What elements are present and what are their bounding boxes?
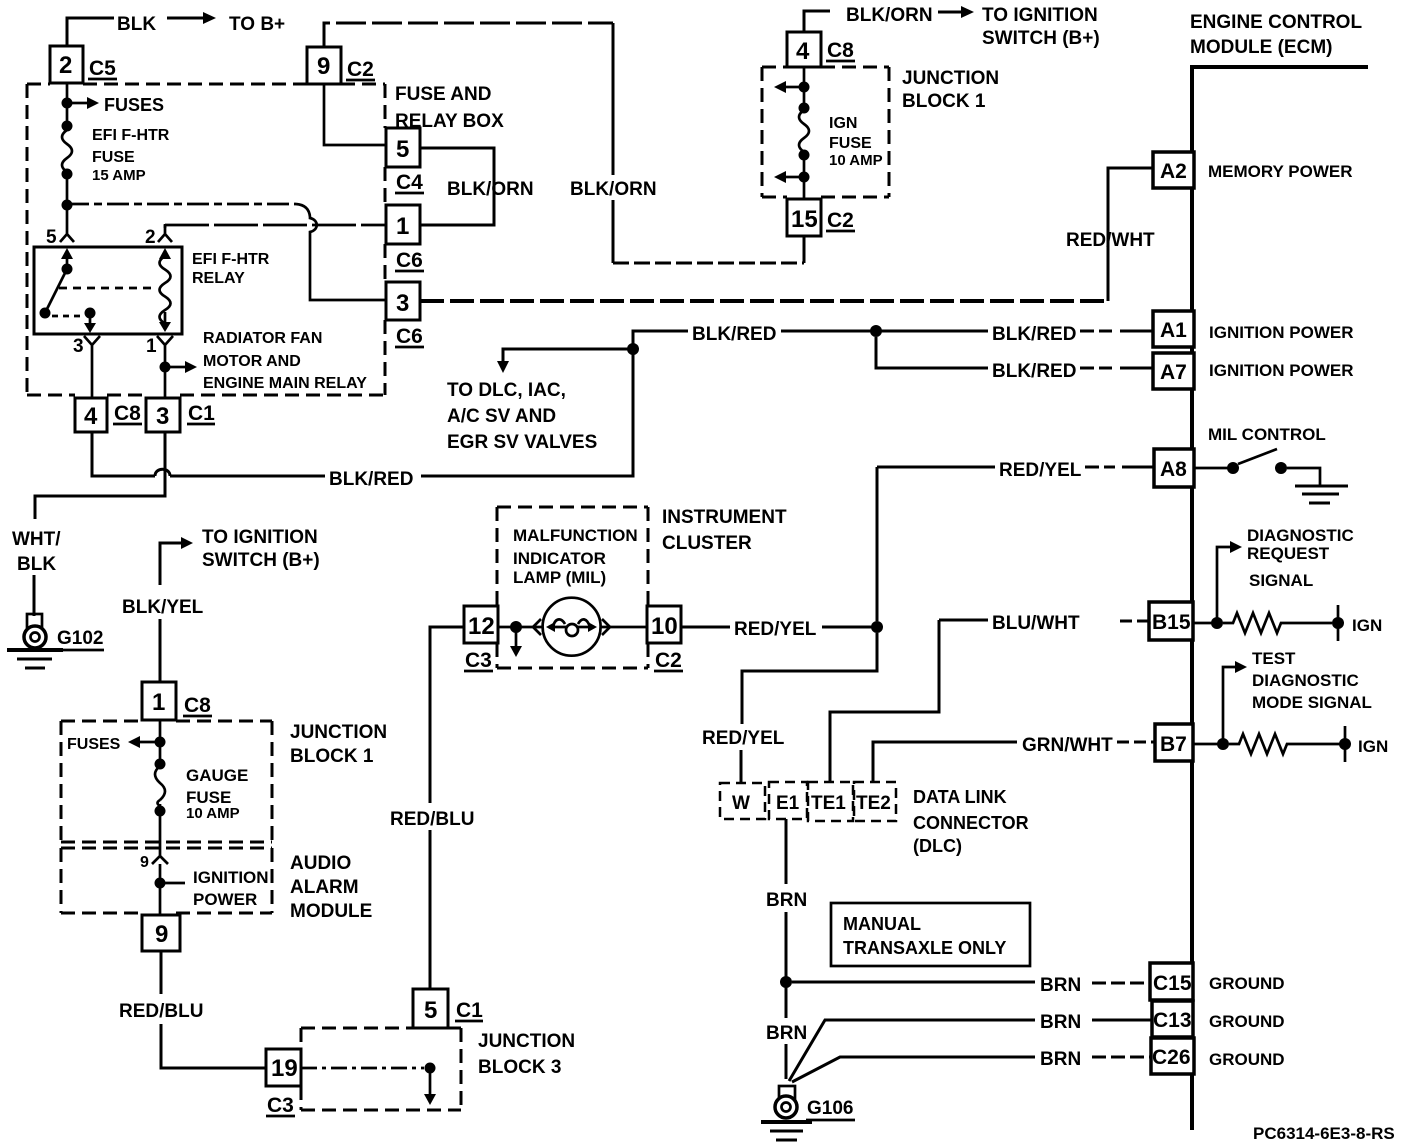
svg-text:MODULE: MODULE bbox=[290, 901, 372, 922]
svg-text:IGN: IGN bbox=[1352, 616, 1382, 635]
svg-text:IGNITION POWER: IGNITION POWER bbox=[1209, 361, 1354, 380]
svg-text:BLU/WHT: BLU/WHT bbox=[992, 613, 1080, 634]
svg-text:19: 19 bbox=[271, 1055, 298, 1082]
svg-text:BLOCK 1: BLOCK 1 bbox=[290, 746, 374, 767]
svg-text:TE1: TE1 bbox=[811, 793, 846, 814]
svg-text:SWITCH (B+): SWITCH (B+) bbox=[982, 28, 1100, 49]
svg-text:C3: C3 bbox=[465, 649, 492, 672]
svg-text:5: 5 bbox=[396, 136, 409, 163]
svg-text:WHT/: WHT/ bbox=[12, 529, 61, 550]
svg-text:10 AMP: 10 AMP bbox=[829, 152, 883, 169]
svg-text:3: 3 bbox=[396, 290, 409, 317]
svg-text:DIAGNOSTIC: DIAGNOSTIC bbox=[1252, 671, 1359, 690]
svg-text:MOTOR AND: MOTOR AND bbox=[203, 353, 301, 370]
svg-text:TE2: TE2 bbox=[856, 793, 891, 814]
svg-text:C1: C1 bbox=[456, 999, 483, 1022]
svg-text:C6: C6 bbox=[396, 325, 423, 348]
svg-text:BRN: BRN bbox=[1040, 975, 1081, 996]
svg-text:POWER: POWER bbox=[193, 890, 257, 909]
svg-text:BRN: BRN bbox=[766, 1023, 807, 1044]
svg-text:RADIATOR FAN: RADIATOR FAN bbox=[203, 330, 322, 347]
svg-text:REQUEST: REQUEST bbox=[1247, 544, 1330, 563]
svg-text:TRANSAXLE ONLY: TRANSAXLE ONLY bbox=[843, 938, 1006, 958]
svg-text:A7: A7 bbox=[1160, 361, 1187, 384]
svg-text:FUSES: FUSES bbox=[104, 95, 164, 115]
svg-text:FUSE: FUSE bbox=[829, 135, 872, 152]
svg-text:INDICATOR: INDICATOR bbox=[513, 549, 606, 568]
svg-text:TO IGNITION: TO IGNITION bbox=[982, 5, 1098, 26]
svg-text:GAUGE: GAUGE bbox=[186, 766, 248, 785]
svg-text:C2: C2 bbox=[347, 58, 374, 81]
svg-text:EFI F-HTR: EFI F-HTR bbox=[192, 251, 270, 268]
svg-text:INSTRUMENT: INSTRUMENT bbox=[662, 507, 787, 528]
svg-text:LAMP (MIL): LAMP (MIL) bbox=[513, 568, 606, 587]
svg-text:MEMORY POWER: MEMORY POWER bbox=[1208, 162, 1353, 181]
svg-text:TO IGNITION: TO IGNITION bbox=[202, 527, 318, 548]
svg-text:2: 2 bbox=[145, 227, 156, 248]
svg-text:BLOCK 3: BLOCK 3 bbox=[478, 1057, 561, 1078]
svg-text:JUNCTION: JUNCTION bbox=[902, 68, 999, 89]
svg-text:10: 10 bbox=[651, 613, 678, 640]
svg-text:3: 3 bbox=[156, 403, 169, 430]
svg-text:FUSE: FUSE bbox=[92, 149, 135, 166]
svg-text:E1: E1 bbox=[776, 793, 800, 814]
svg-text:9: 9 bbox=[155, 921, 168, 948]
svg-text:12: 12 bbox=[468, 613, 495, 640]
svg-text:15 AMP: 15 AMP bbox=[92, 167, 146, 184]
svg-text:GROUND: GROUND bbox=[1209, 1012, 1285, 1031]
svg-text:GROUND: GROUND bbox=[1209, 1050, 1285, 1069]
svg-text:RED/BLU: RED/BLU bbox=[119, 1001, 203, 1022]
svg-text:BRN: BRN bbox=[1040, 1012, 1081, 1033]
svg-text:BLK/RED: BLK/RED bbox=[329, 469, 413, 490]
svg-text:MODULE (ECM): MODULE (ECM) bbox=[1190, 37, 1332, 58]
svg-text:IGNITION POWER: IGNITION POWER bbox=[1209, 323, 1354, 342]
svg-text:C8: C8 bbox=[114, 402, 141, 425]
svg-text:RED/BLU: RED/BLU bbox=[390, 809, 474, 830]
svg-text:C2: C2 bbox=[655, 649, 682, 672]
svg-text:4: 4 bbox=[84, 403, 98, 430]
svg-text:EFI F-HTR: EFI F-HTR bbox=[92, 127, 170, 144]
svg-text:IGN: IGN bbox=[829, 115, 857, 132]
svg-text:G106: G106 bbox=[807, 1098, 853, 1119]
svg-text:FUSE AND: FUSE AND bbox=[395, 84, 491, 105]
svg-text:10 AMP: 10 AMP bbox=[186, 805, 240, 822]
svg-text:BLK/RED: BLK/RED bbox=[692, 324, 776, 345]
svg-text:RED/YEL: RED/YEL bbox=[999, 460, 1082, 481]
svg-text:BLK/RED: BLK/RED bbox=[992, 361, 1076, 382]
svg-text:1: 1 bbox=[152, 689, 165, 716]
svg-text:B7: B7 bbox=[1160, 733, 1187, 756]
svg-text:C3: C3 bbox=[267, 1094, 294, 1117]
svg-text:(DLC): (DLC) bbox=[913, 836, 962, 856]
svg-text:BLK/ORN: BLK/ORN bbox=[447, 179, 534, 200]
svg-text:4: 4 bbox=[796, 38, 810, 65]
svg-text:C15: C15 bbox=[1153, 972, 1192, 995]
svg-text:RED/YEL: RED/YEL bbox=[702, 728, 785, 749]
svg-text:MALFUNCTION: MALFUNCTION bbox=[513, 526, 638, 545]
svg-text:W: W bbox=[732, 793, 750, 814]
svg-text:BLK: BLK bbox=[17, 554, 56, 575]
svg-text:MIL CONTROL: MIL CONTROL bbox=[1208, 425, 1326, 444]
svg-text:A/C SV AND: A/C SV AND bbox=[447, 406, 556, 427]
svg-text:AUDIO: AUDIO bbox=[290, 853, 351, 874]
svg-text:PC6314-6E3-8-RS: PC6314-6E3-8-RS bbox=[1253, 1124, 1395, 1143]
svg-text:TEST: TEST bbox=[1252, 649, 1296, 668]
svg-text:C6: C6 bbox=[396, 249, 423, 272]
svg-text:BRN: BRN bbox=[766, 890, 807, 911]
svg-text:C1: C1 bbox=[188, 402, 215, 425]
svg-text:BLK/ORN: BLK/ORN bbox=[846, 5, 933, 26]
svg-text:GROUND: GROUND bbox=[1209, 974, 1285, 993]
svg-text:JUNCTION: JUNCTION bbox=[290, 722, 387, 743]
svg-text:SIGNAL: SIGNAL bbox=[1249, 571, 1313, 590]
svg-text:G102: G102 bbox=[57, 628, 103, 649]
svg-text:BLK/YEL: BLK/YEL bbox=[122, 597, 204, 618]
svg-text:1: 1 bbox=[396, 213, 409, 240]
svg-text:CONNECTOR: CONNECTOR bbox=[913, 813, 1029, 833]
svg-text:MODE SIGNAL: MODE SIGNAL bbox=[1252, 693, 1372, 712]
svg-text:SWITCH (B+): SWITCH (B+) bbox=[202, 550, 320, 571]
svg-text:5: 5 bbox=[46, 227, 57, 248]
svg-text:ENGINE MAIN RELAY: ENGINE MAIN RELAY bbox=[203, 375, 367, 392]
svg-text:CLUSTER: CLUSTER bbox=[662, 533, 752, 554]
svg-text:FUSES: FUSES bbox=[67, 736, 121, 753]
svg-text:C8: C8 bbox=[827, 39, 854, 62]
svg-text:9: 9 bbox=[317, 53, 330, 80]
svg-text:ENGINE CONTROL: ENGINE CONTROL bbox=[1190, 12, 1362, 33]
svg-text:TO B+: TO B+ bbox=[229, 14, 285, 35]
svg-text:BRN: BRN bbox=[1040, 1049, 1081, 1070]
svg-text:GRN/WHT: GRN/WHT bbox=[1022, 735, 1113, 756]
svg-text:RELAY: RELAY bbox=[192, 270, 245, 287]
svg-text:B15: B15 bbox=[1152, 611, 1191, 634]
svg-text:1: 1 bbox=[146, 336, 157, 357]
svg-text:ALARM: ALARM bbox=[290, 877, 359, 898]
svg-text:C8: C8 bbox=[184, 694, 211, 717]
svg-text:2: 2 bbox=[59, 52, 72, 79]
svg-text:A1: A1 bbox=[1160, 319, 1187, 342]
svg-text:5: 5 bbox=[424, 997, 437, 1024]
svg-text:EGR SV VALVES: EGR SV VALVES bbox=[447, 432, 597, 453]
svg-text:9: 9 bbox=[140, 854, 149, 871]
svg-text:RED/YEL: RED/YEL bbox=[734, 619, 817, 640]
svg-text:A8: A8 bbox=[1160, 458, 1187, 481]
svg-text:C13: C13 bbox=[1153, 1009, 1192, 1032]
svg-text:BLK/RED: BLK/RED bbox=[992, 324, 1076, 345]
svg-text:MANUAL: MANUAL bbox=[843, 914, 921, 934]
svg-text:3: 3 bbox=[73, 336, 84, 357]
svg-text:BLK/ORN: BLK/ORN bbox=[570, 179, 657, 200]
svg-text:C5: C5 bbox=[89, 57, 116, 80]
svg-text:IGNITION: IGNITION bbox=[193, 868, 269, 887]
svg-text:IGN: IGN bbox=[1358, 737, 1388, 756]
svg-text:TO DLC, IAC,: TO DLC, IAC, bbox=[447, 380, 566, 401]
svg-text:BLOCK 1: BLOCK 1 bbox=[902, 91, 986, 112]
svg-text:DIAGNOSTIC: DIAGNOSTIC bbox=[1247, 526, 1354, 545]
svg-text:DATA LINK: DATA LINK bbox=[913, 787, 1007, 807]
svg-text:JUNCTION: JUNCTION bbox=[478, 1031, 575, 1052]
svg-text:C2: C2 bbox=[827, 209, 854, 232]
svg-text:BLK: BLK bbox=[117, 14, 156, 35]
svg-text:RED/WHT: RED/WHT bbox=[1066, 230, 1155, 251]
svg-text:15: 15 bbox=[791, 206, 818, 233]
svg-text:A2: A2 bbox=[1160, 160, 1187, 183]
svg-text:C26: C26 bbox=[1152, 1046, 1191, 1069]
svg-text:C4: C4 bbox=[396, 171, 423, 194]
